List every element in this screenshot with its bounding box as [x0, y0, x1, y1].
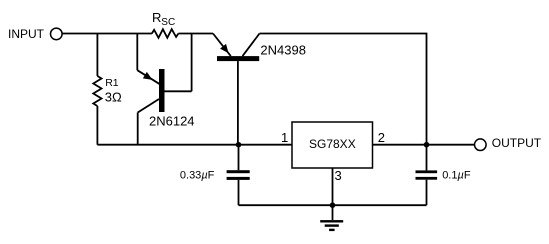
- output terminal: [475, 139, 487, 151]
- svg-text:0.1µF: 0.1µF: [442, 170, 471, 182]
- svg-text:2N6124: 2N6124: [149, 113, 195, 128]
- resistor RSC: [152, 29, 179, 38]
- wire pin 2 to output: [373, 144, 475, 146]
- Q2 emitter diagonal: [213, 34, 231, 57]
- capacitor C2 bottom lead: [426, 180, 428, 206]
- node junction pin3 / ground: [330, 202, 336, 208]
- wire pin 3 drop: [332, 168, 334, 205]
- wire input to RSC: [62, 33, 152, 35]
- Q2 emitter arrow: [220, 44, 229, 53]
- svg-text:3: 3: [335, 168, 342, 183]
- resistor R1: [93, 76, 101, 106]
- transistor Q2 2N4398 base bar: [217, 56, 259, 61]
- Q1 emitter diagonal: [137, 70, 160, 84]
- wire R1 top lead: [96, 34, 98, 77]
- wire Q1 base riser: [191, 34, 193, 92]
- Q2 collector diagonal: [243, 34, 260, 57]
- capacitor C1 plates: [227, 170, 250, 173]
- svg-text:1: 1: [281, 130, 288, 145]
- capacitor C1 bottom lead: [238, 180, 240, 205]
- node junction output / C2: [424, 142, 430, 148]
- transistor Q1 2N6124 base bar: [159, 69, 165, 112]
- capacitor C2 plates: [416, 170, 438, 173]
- ground stub: [332, 205, 334, 220]
- Q1 emitter arrow: [143, 72, 153, 80]
- Q1 base lead: [165, 90, 192, 92]
- capacitor C1 top lead: [238, 145, 240, 171]
- wire ground rail: [239, 204, 427, 206]
- svg-text:2N4398: 2N4398: [260, 42, 306, 57]
- wire regulator input line: [97, 144, 291, 146]
- svg-text:R1: R1: [105, 77, 119, 89]
- svg-text:OUTPUT: OUTPUT: [492, 136, 542, 150]
- svg-text:INPUT: INPUT: [8, 27, 45, 41]
- svg-text:SC: SC: [161, 17, 175, 28]
- input terminal: [51, 28, 63, 40]
- svg-text:SG78XX: SG78XX: [309, 137, 356, 151]
- ground symbol: [320, 220, 343, 222]
- svg-text:2: 2: [378, 130, 385, 145]
- wire Q1 emitter riser: [136, 34, 138, 71]
- node junction Q2 base / C1: [236, 142, 242, 148]
- regulator U1 SG78XX: [292, 122, 373, 168]
- wire Q2 collector to output node: [260, 34, 427, 145]
- capacitor C2 top lead: [426, 145, 428, 171]
- svg-text:R: R: [152, 10, 161, 25]
- Q1 collector diagonal: [138, 99, 159, 113]
- wire R1 bottom lead: [96, 106, 98, 145]
- svg-text:3Ω: 3Ω: [105, 89, 122, 104]
- wire Q1 collector drop: [137, 113, 139, 145]
- svg-text:0.33µF: 0.33µF: [180, 170, 215, 182]
- wire RSC to Q2 emitter: [178, 33, 213, 35]
- wire Q2 base drop: [237, 61, 239, 145]
